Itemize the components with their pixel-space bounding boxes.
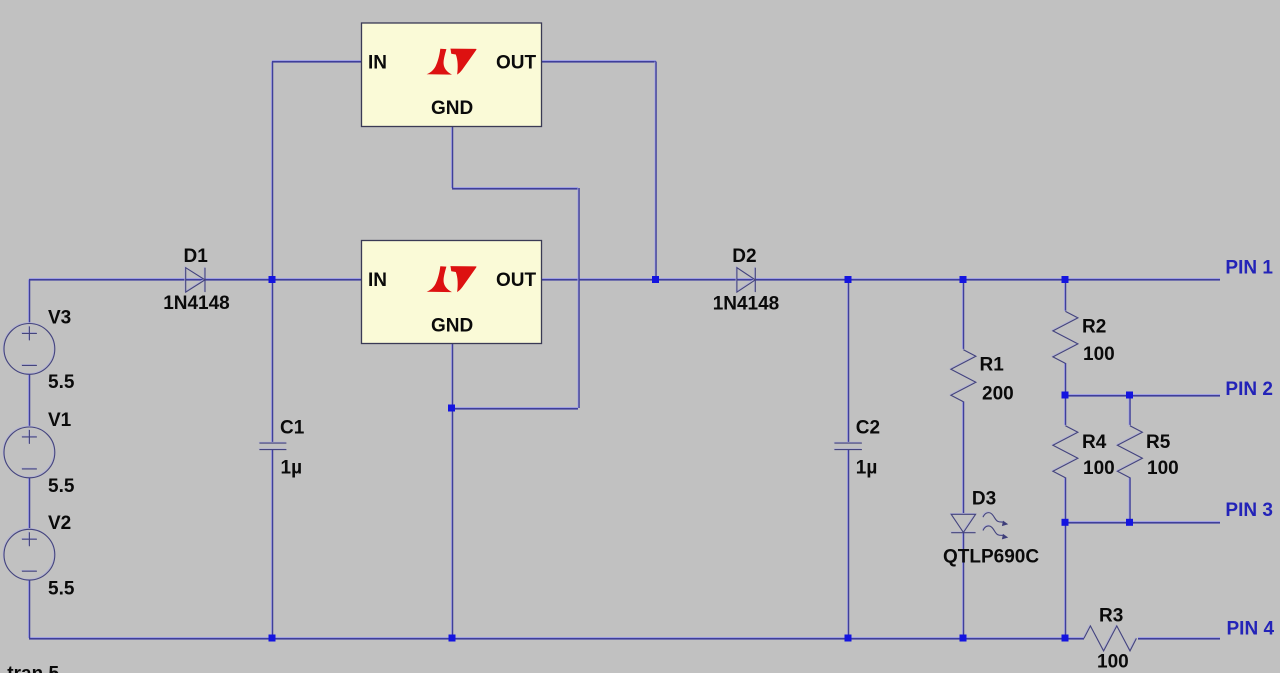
svg-text:R4: R4 [1082,432,1107,453]
svg-text:100: 100 [1083,344,1115,365]
svg-text:V2: V2 [48,513,71,534]
svg-text:D1: D1 [184,246,209,267]
svg-text:D2: D2 [732,246,756,267]
svg-text:100: 100 [1097,652,1129,673]
svg-text:IN: IN [368,52,387,73]
svg-text:100: 100 [1083,458,1115,479]
svg-text:IN: IN [368,270,387,291]
svg-text:GND: GND [431,98,473,119]
svg-text:R2: R2 [1082,317,1106,338]
svg-text:C1: C1 [280,418,305,439]
svg-text:OUT: OUT [496,270,537,291]
svg-text:1N4148: 1N4148 [163,293,230,314]
svg-text:PIN 2: PIN 2 [1225,379,1273,400]
svg-text:R5: R5 [1146,432,1171,453]
svg-text:5.5: 5.5 [48,578,75,599]
svg-text:PIN 1: PIN 1 [1225,257,1273,278]
svg-text:1µ: 1µ [281,458,303,479]
svg-text:1N4148: 1N4148 [713,294,780,315]
svg-text:1µ: 1µ [856,458,878,479]
svg-text:QTLP690C: QTLP690C [943,546,1039,567]
svg-text:C2: C2 [856,418,880,439]
svg-text:5.5: 5.5 [48,476,75,497]
svg-text:PIN 4: PIN 4 [1227,618,1275,639]
svg-text:PIN 3: PIN 3 [1225,500,1273,521]
svg-text:.tran 5: .tran 5 [2,664,59,673]
svg-text:OUT: OUT [496,52,537,73]
svg-text:100: 100 [1147,458,1179,479]
svg-text:V3: V3 [48,308,71,329]
svg-text:GND: GND [431,315,473,336]
svg-text:V1: V1 [48,410,72,431]
svg-text:R1: R1 [980,355,1005,376]
svg-text:200: 200 [982,384,1014,405]
svg-text:D3: D3 [972,489,996,510]
svg-text:R3: R3 [1099,606,1123,627]
svg-text:5.5: 5.5 [48,372,75,393]
